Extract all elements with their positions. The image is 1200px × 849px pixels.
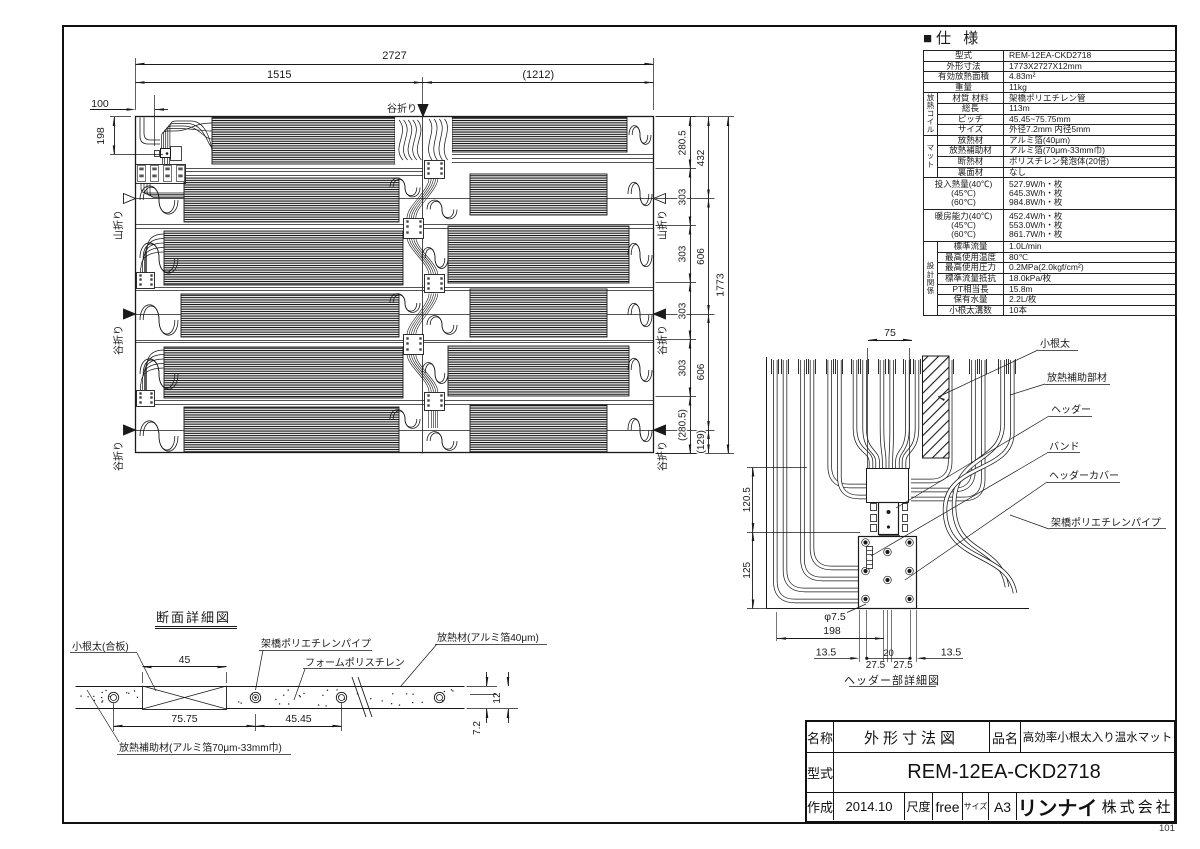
- svg-text:27.5: 27.5: [866, 660, 886, 671]
- svg-text:303: 303: [678, 359, 689, 376]
- svg-text:(1212): (1212): [522, 69, 554, 81]
- svg-text:(280.5): (280.5): [678, 409, 689, 441]
- svg-text:断面詳細図: 断面詳細図: [156, 610, 231, 625]
- svg-text:1773: 1773: [715, 273, 727, 297]
- svg-text:198: 198: [95, 127, 107, 145]
- svg-text:谷折り: 谷折り: [387, 102, 417, 115]
- svg-text:φ7.5: φ7.5: [824, 611, 846, 623]
- svg-text:303: 303: [678, 302, 689, 319]
- svg-text:45.45: 45.45: [285, 713, 311, 725]
- svg-text:谷折り: 谷折り: [656, 441, 669, 471]
- svg-text:13.5: 13.5: [941, 647, 962, 659]
- svg-text:75: 75: [884, 327, 896, 339]
- svg-text:303: 303: [678, 245, 689, 262]
- svg-text:2727: 2727: [382, 50, 406, 62]
- svg-text:ヘッダー部詳細図: ヘッダー部詳細図: [844, 673, 940, 687]
- svg-text:架橋ポリエチレンパイプ: 架橋ポリエチレンパイプ: [1051, 516, 1161, 529]
- svg-text:27.5: 27.5: [893, 660, 913, 671]
- svg-text:13.5: 13.5: [816, 647, 837, 659]
- svg-text:山折り: 山折り: [112, 210, 125, 240]
- svg-text:12: 12: [492, 692, 503, 704]
- svg-text:45: 45: [179, 654, 191, 666]
- svg-text:小根太: 小根太: [1040, 337, 1070, 350]
- svg-text:606: 606: [696, 363, 707, 380]
- svg-text:432: 432: [696, 149, 707, 166]
- svg-text:(129): (129): [696, 430, 707, 453]
- svg-text:山折り: 山折り: [656, 210, 669, 240]
- svg-text:バンド: バンド: [1049, 441, 1080, 453]
- svg-text:280.5: 280.5: [678, 130, 689, 155]
- svg-text:谷折り: 谷折り: [112, 441, 125, 471]
- svg-text:100: 100: [91, 98, 109, 110]
- svg-text:放熱補助部材: 放熱補助部材: [1047, 371, 1107, 384]
- svg-text:75.75: 75.75: [171, 713, 197, 725]
- svg-text:放熱材(アルミ箔40μm): 放熱材(アルミ箔40μm): [437, 631, 539, 644]
- svg-text:20: 20: [883, 648, 894, 659]
- svg-text:606: 606: [696, 248, 707, 265]
- svg-text:谷折り: 谷折り: [112, 325, 125, 355]
- svg-text:架橋ポリエチレンパイプ: 架橋ポリエチレンパイプ: [261, 637, 371, 650]
- svg-text:120.5: 120.5: [742, 487, 753, 512]
- svg-text:フォームポリスチレン: フォームポリスチレン: [305, 657, 405, 669]
- svg-text:谷折り: 谷折り: [656, 325, 669, 355]
- svg-text:198: 198: [823, 625, 841, 637]
- svg-text:7.2: 7.2: [472, 721, 483, 735]
- svg-text:125: 125: [742, 561, 753, 578]
- svg-text:放熱補助材(アルミ箔70μm-33mm巾): 放熱補助材(アルミ箔70μm-33mm巾): [119, 741, 282, 754]
- svg-text:303: 303: [678, 188, 689, 205]
- svg-text:ヘッダー: ヘッダー: [1051, 403, 1091, 416]
- svg-text:小根太(合板): 小根太(合板): [72, 640, 129, 653]
- svg-text:ヘッダーカバー: ヘッダーカバー: [1049, 469, 1119, 482]
- svg-text:1515: 1515: [267, 69, 291, 81]
